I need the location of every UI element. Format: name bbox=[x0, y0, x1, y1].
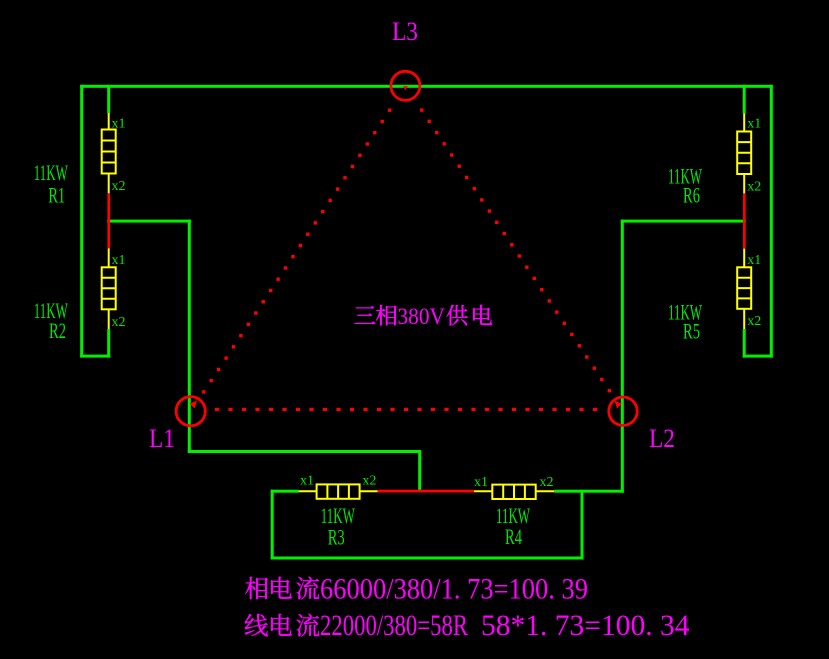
dotted line L3 to L1 bbox=[388, 109, 391, 112]
wire right outer vertical bbox=[770, 85, 773, 358]
svg-text:11KW: 11KW bbox=[34, 160, 68, 185]
arrow mark in L2 bbox=[615, 401, 622, 409]
node L3 circle bbox=[391, 71, 420, 100]
svg-text:380V: 380V bbox=[398, 304, 446, 329]
svg-text:R3: R3 bbox=[328, 525, 345, 550]
svg-text:x2: x2 bbox=[112, 315, 126, 330]
wire left bottom horizontal bbox=[80, 355, 110, 358]
wire R4 x2 to L2 bbox=[554, 490, 624, 493]
svg-text:x2: x2 bbox=[362, 474, 376, 489]
wire red R3.x2 to R4.x1 bbox=[378, 490, 474, 493]
svg-text:66000/380/1. 73=100. 39: 66000/380/1. 73=100. 39 bbox=[320, 573, 588, 606]
resistor R6 bbox=[737, 114, 751, 194]
svg-text:x1: x1 bbox=[747, 253, 761, 268]
svg-text:x2: x2 bbox=[747, 314, 761, 329]
svg-text:L1: L1 bbox=[149, 424, 175, 453]
node L2 circle bbox=[609, 397, 637, 425]
wire L1 bottom horizontal bbox=[188, 450, 421, 453]
svg-text:x1: x1 bbox=[474, 475, 488, 490]
svg-text:x1: x1 bbox=[112, 253, 126, 268]
svg-text:R4: R4 bbox=[505, 524, 522, 549]
svg-text:x1: x1 bbox=[300, 474, 314, 489]
svg-text:L3: L3 bbox=[392, 17, 418, 46]
dotted line L1 to L2 bbox=[215, 408, 219, 411]
text line1 相电流66000/380/1.73=100.39 bbox=[245, 577, 319, 600]
resistor R3 bbox=[299, 484, 378, 498]
wire right bottom horizontal bbox=[743, 355, 773, 358]
wire bottom rect bottom horizontal bbox=[271, 557, 584, 560]
wire left mid horizontal to L1 bbox=[107, 220, 191, 223]
svg-text:x1: x1 bbox=[112, 117, 126, 132]
node L1 circle bbox=[176, 397, 205, 426]
arrow mark in L1 bbox=[190, 401, 198, 409]
wire below R5 bbox=[743, 329, 746, 358]
svg-text:x2: x2 bbox=[747, 180, 761, 195]
resistor R2 bbox=[102, 248, 116, 329]
dotted line L3 to L2 bbox=[420, 108, 423, 111]
resistor R5 bbox=[737, 249, 751, 329]
resistor R4 bbox=[474, 485, 554, 499]
wire bottom rect left vertical bbox=[271, 490, 274, 560]
svg-text:R6: R6 bbox=[683, 183, 700, 208]
wire bottom left piece to R3 x1 bbox=[271, 490, 299, 493]
svg-text:x1: x1 bbox=[747, 117, 761, 132]
wire below R2 bbox=[107, 329, 110, 358]
svg-text:58*1. 73=100. 34: 58*1. 73=100. 34 bbox=[481, 609, 690, 642]
svg-text:R1: R1 bbox=[48, 183, 65, 208]
wire L2 drop vertical bbox=[621, 220, 624, 493]
wire stub top of R6 bbox=[743, 85, 746, 114]
wire stub top of R1 bbox=[107, 85, 110, 113]
wire right mid horizontal to L2 bbox=[621, 220, 746, 223]
wire bottom rect right vertical bbox=[581, 490, 584, 560]
wire top rail L3 bbox=[80, 85, 773, 88]
svg-text:x2: x2 bbox=[112, 179, 126, 194]
svg-text:R2: R2 bbox=[49, 318, 66, 343]
wire left outer vertical bbox=[80, 85, 83, 358]
svg-text:22000/380=58R: 22000/380=58R bbox=[320, 609, 468, 642]
wire junction stub to R3-R4 node bbox=[418, 450, 421, 492]
svg-text:R5: R5 bbox=[683, 319, 700, 344]
text 三相380V供电 bbox=[354, 305, 492, 326]
resistor R1 bbox=[102, 113, 116, 193]
text line2 线电流22000/380=58R 58*1.73=100.34 bbox=[245, 614, 320, 637]
wire red R6.x2 to R5.x1 bbox=[743, 193, 746, 248]
wire red R1.x2 to R2.x1 bbox=[107, 193, 110, 248]
svg-text:x2: x2 bbox=[540, 475, 554, 490]
svg-text:L2: L2 bbox=[649, 424, 675, 453]
wire L1 drop vertical bbox=[188, 220, 191, 453]
arrow mark in L3 bbox=[403, 86, 408, 90]
